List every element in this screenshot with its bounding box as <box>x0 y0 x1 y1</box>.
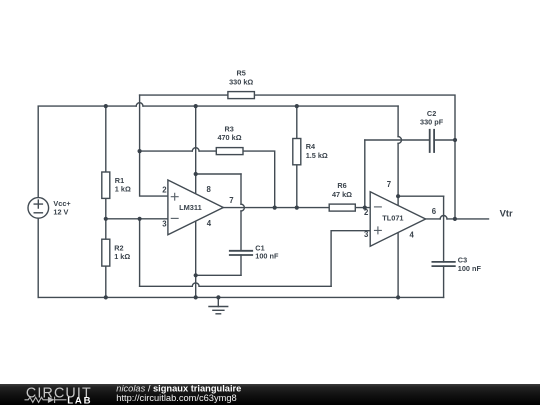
wire LM311 pin4 vertical <box>195 220 197 298</box>
node R4 top on Vcc rail <box>295 104 299 108</box>
wire C2 horizontal left segment <box>365 139 430 141</box>
wire C1 bottom horizontal to pin4 line <box>196 274 241 276</box>
svg-text:R3: R3 <box>225 124 234 133</box>
ground symbol <box>209 297 228 313</box>
op-amp U1 LM311 triangle <box>168 180 223 235</box>
wire divider node to LM311 pin3 <box>106 218 168 220</box>
wire R6 right lead to TL071 pin2 <box>355 207 370 209</box>
TL071 minus input symbol <box>375 206 382 208</box>
svg-text:LM311: LM311 <box>179 203 202 212</box>
wire R2 bottom lead <box>105 266 107 297</box>
svg-text:100 nF: 100 nF <box>458 264 482 273</box>
wire R1 top lead <box>105 106 107 172</box>
wire R2 top lead <box>105 219 107 239</box>
wire LM311 pin8 branch to C1 <box>196 173 241 175</box>
wire divider branch up to TL071 pin3 <box>331 231 370 287</box>
hop on divider branch over LM311 pin4 vertical <box>192 283 199 286</box>
svg-text:7: 7 <box>387 180 391 189</box>
wire Vcc rail y=106 right segment to TL071 pin7 corner <box>143 105 398 107</box>
svg-text:47 kΩ: 47 kΩ <box>332 190 352 199</box>
svg-text:1 kΩ: 1 kΩ <box>115 185 131 194</box>
svg-text:3: 3 <box>162 219 167 228</box>
svg-text:1 kΩ: 1 kΩ <box>114 252 130 261</box>
svg-text:100 nF: 100 nF <box>255 252 279 261</box>
node C1 bottom <box>194 273 198 277</box>
resistor R2 <box>102 239 110 266</box>
wire C2 right plate to output node vertical <box>434 139 455 141</box>
node R4 bottom on output <box>295 206 299 210</box>
wire R3 left lead from node vertical <box>140 150 193 152</box>
CircuitLab logo resistor-diode glyph <box>25 397 67 403</box>
svg-text:3: 3 <box>364 230 369 239</box>
node ground symbol on rail <box>216 295 220 299</box>
hop on Vcc rail over node vertical <box>136 103 143 106</box>
wire TL071 output to Vtr <box>447 218 489 220</box>
node LM311 pin4 on ground rail <box>194 295 198 299</box>
hop on TL071 output over C3 vertical <box>440 215 447 218</box>
wire C3 bottom vertical <box>443 266 445 297</box>
node R3 right on output <box>273 206 277 210</box>
wire C3 top vertical <box>443 196 445 262</box>
wire TL071 pin7 vertical upper segment <box>397 106 399 137</box>
capacitor C1 plates <box>230 251 252 255</box>
wire TL071 output left segment <box>426 218 441 220</box>
svg-text:470 kΩ: 470 kΩ <box>217 133 241 142</box>
svg-text:R5: R5 <box>237 68 246 77</box>
node C2 right <box>453 138 457 142</box>
wire divider branch horizontal y=286.3 left segment <box>140 285 193 287</box>
svg-text:R6: R6 <box>337 181 346 190</box>
wire R5 rail right of body <box>254 95 455 140</box>
resistor R5 <box>228 92 255 99</box>
voltage source V1 <box>28 198 49 219</box>
wire LM311 output y=207.6 <box>223 207 329 209</box>
node pin8 on Vcc rail <box>194 104 198 108</box>
node C2 left on TL071 pin2 <box>363 206 367 210</box>
capacitor C2 plates <box>430 130 434 152</box>
node pin8 branch <box>194 172 198 176</box>
wire R3 left lead segment 2 <box>199 150 216 152</box>
node divider R1-R2 <box>104 217 108 221</box>
op-amp U2 TL071 triangle <box>370 192 425 246</box>
svg-text:Vtr: Vtr <box>500 207 513 218</box>
wire TL071 pin4 vertical <box>397 233 399 298</box>
node TL071 pin4 on ground rail <box>396 295 400 299</box>
svg-text:http://circuitlab.com/c63ymg8: http://circuitlab.com/c63ymg8 <box>116 393 236 403</box>
svg-text:TL071: TL071 <box>382 214 403 223</box>
wire source bottom lead <box>37 218 39 297</box>
wire node vertical x=139.6 from R5 rail to LM311 pin2 <box>140 95 168 196</box>
wire R1 bottom lead <box>105 198 107 218</box>
svg-text:7: 7 <box>229 196 233 205</box>
wire divider branch down x=139.6 <box>139 219 141 286</box>
svg-text:4: 4 <box>207 219 212 228</box>
LM311 minus input symbol <box>171 217 178 219</box>
node divider branch <box>138 217 142 221</box>
wire LM311 pin8 vertical <box>195 106 197 194</box>
wire R4 top lead <box>296 106 298 138</box>
wire C1 top vertical upper segment <box>240 174 242 204</box>
resistor R6 <box>329 204 355 211</box>
svg-text:8: 8 <box>207 185 212 194</box>
wire C2 left vertical <box>364 140 366 208</box>
wire right vertical from C2 node down to output node <box>454 140 456 219</box>
svg-text:4: 4 <box>410 230 415 239</box>
node R1 top on Vcc rail <box>104 104 108 108</box>
node R3 left <box>138 149 142 153</box>
svg-text:330 pF: 330 pF <box>420 118 444 127</box>
node R2 bottom on ground rail <box>104 295 108 299</box>
wire Vcc rail y=106 left segment <box>38 106 136 198</box>
TL071 plus input symbol <box>375 227 382 234</box>
resistor R3 <box>216 148 243 155</box>
wire R3 right lead down to output <box>243 151 275 208</box>
wire TL071 pin7 branch to C3 <box>398 195 444 197</box>
capacitor C3 plates <box>432 262 454 266</box>
hop on R3 wire over pin8 vertical <box>192 148 199 151</box>
wire TL071 pin7 vertical lower segment <box>397 143 399 205</box>
wire R5 feedback rail y=95 <box>140 94 228 96</box>
svg-text:6: 6 <box>432 207 437 216</box>
wire divider branch horizontal y=286.3 right segment <box>199 285 331 287</box>
svg-text:1.5 kΩ: 1.5 kΩ <box>306 151 328 160</box>
svg-text:nicolas / signaux triangulaire: nicolas / signaux triangulaire <box>116 383 241 393</box>
svg-text:C2: C2 <box>427 109 436 118</box>
svg-text:2: 2 <box>364 208 369 217</box>
wire R4 bottom lead <box>296 165 298 208</box>
node pin7 branch <box>396 194 400 198</box>
resistor R4 <box>293 139 301 165</box>
LM311 plus input symbol <box>171 193 178 200</box>
svg-text:12 V: 12 V <box>53 207 68 216</box>
svg-text:2: 2 <box>162 185 167 194</box>
resistor R1 <box>102 172 110 198</box>
node TL071 output <box>453 217 457 221</box>
hop of pin7 vertical over C2 wire <box>398 137 401 144</box>
wire ground rail y=297.4 <box>38 296 443 298</box>
wire C1 top vertical lower segment <box>240 211 242 251</box>
hop of C1 vertical over output wire <box>241 204 244 211</box>
svg-text:330 kΩ: 330 kΩ <box>229 77 253 86</box>
svg-text:LAB: LAB <box>67 395 92 405</box>
wire C1 bottom vertical <box>240 255 242 275</box>
